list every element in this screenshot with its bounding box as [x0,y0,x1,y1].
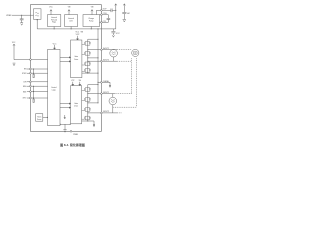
ground below C1 [20,23,23,26]
svg-text:Regs: Regs [52,22,56,24]
ground stub left [13,63,16,66]
pin AOUT2 [101,60,103,62]
ground ISENA arrow [109,85,111,87]
arrow GND indicator [64,115,66,119]
svg-text:VM: VM [91,6,94,8]
wire ISENA [98,81,101,83]
wire dashed motor left vertical [131,58,133,93]
wire winding A bottom tap [113,57,115,61]
wire AOUT1 external [102,49,117,51]
arrow logic to gdB 2 [60,107,71,108]
wire U2 stem [53,27,55,29]
wire CPL internal [100,21,101,23]
wire VCP internal [97,10,101,14]
svg-text:Pump: Pump [89,20,93,22]
wire BOUT1 external [102,93,114,95]
svg-text:DIR: DIR [23,82,27,84]
pin ISENA [101,81,103,83]
wire CPH internal [100,14,101,16]
wire supply rail [37,28,116,30]
wire VCP external [102,9,111,11]
wire HS2 feed B [88,102,98,104]
svg-text:nFLT: nFLT [23,98,27,100]
IC boundary [30,5,101,132]
pin AOUT1 [101,49,103,51]
wire VREF [12,14,34,16]
svg-text:VM: VM [68,6,71,8]
transistor Q1 [82,41,91,45]
winding B circle [109,97,117,105]
power arrows into U8 [72,82,81,86]
ground under C5 [112,35,114,37]
transistor Q6 [82,98,91,102]
power arrow into U5 [54,45,56,49]
power arrow VM column [115,4,117,29]
transistor Q2 [82,51,91,55]
capacitor C5 VCC [111,29,115,35]
wire flying cap to CPL [102,19,108,22]
node rail junctions [54,28,99,29]
wire U4 stem [90,27,92,29]
capacitor C1 [20,15,24,22]
power arrow into U7 [77,36,79,40]
wire nSLEEP [14,59,48,61]
ground bridge B arrow [93,124,95,127]
node VM column junction [115,10,116,11]
transistor Q8 [82,116,91,120]
transistor Q5 [82,88,91,92]
wire U3 stem [70,27,72,29]
svg-text:VCC: VCC [49,6,53,8]
pin CPH [101,14,103,16]
regulator block U2 [48,15,61,27]
wire BOUT2 external [102,112,117,114]
wire BOUT1 [88,93,101,95]
svg-text:VCC: VCC [12,42,16,44]
wire AOUT2 external [102,60,117,62]
svg-text:VCC: VCC [116,33,120,35]
power arrow VM supply [123,4,125,13]
wire thermal to logic [43,116,48,118]
svg-text:LDO: LDO [69,20,73,22]
wire dashed motor right vertical [136,58,138,107]
wire dashed motor B1 [115,93,132,95]
wire CPH to flying cap [102,15,108,19]
svg-text:STEP: STEP [22,73,27,75]
svg-text:EN: EN [24,69,27,71]
svg-text:VCC: VCC [53,43,57,45]
power arrow nSLEEP [13,44,15,60]
wire logic to gdB bottom [60,123,71,125]
svg-text:VREF: VREF [6,15,12,17]
svg-text:VCP: VCP [71,80,74,82]
wire HS2 feed A [88,57,98,59]
pin BOUT2 [101,112,103,114]
svg-text:MD1: MD1 [23,91,27,93]
wire bridge A drain feed [88,38,98,40]
rotor circle motor [132,49,139,56]
wire bridge B source bus [82,121,94,124]
ground GND pad [63,130,66,133]
wire BOUT2 [88,112,101,114]
control logic block U5 [48,49,60,125]
arrow logic to gdA 2 [60,61,71,62]
wire VM drop [97,29,99,103]
svg-text:Drive: Drive [74,58,78,61]
transistor Q3 [82,62,91,66]
charge pump block U4 [83,15,100,27]
ground below C4 [123,19,126,22]
LDO block U3 [65,15,78,27]
pin GND [70,130,72,132]
svg-text:图 8-4. 简化原理图: 图 8-4. 简化原理图 [60,142,85,147]
gate drive B block U8 [71,86,82,124]
gate drive A block U7 [71,40,82,78]
wire C2 to VM column [112,9,116,11]
svg-text:VCP: VCP [76,34,80,36]
svg-text:MD0: MD0 [23,86,27,88]
thermal sense block U6 [36,114,43,122]
winding A circle [110,49,118,57]
svg-text:Logic: Logic [52,90,56,92]
wire dashed motor A1 [117,49,132,51]
wire bridge A source bus [82,72,98,74]
power arrow above U2 [50,10,52,15]
oscillator glyph [35,12,39,16]
pin VCP [101,9,103,11]
capacitor C2 VCP [111,9,112,13]
wire AOUT1 [88,49,101,51]
node VREF junction [21,15,22,16]
svg-text:CPL: CPL [103,21,107,23]
power arrow above U3 [68,10,70,15]
svg-text:VM: VM [127,13,130,15]
wire OSC to rail [36,19,38,29]
wire dashed motor B2 stub [117,112,122,114]
oscillator block [34,9,42,19]
node OSC stem junction [37,19,38,20]
svg-text:VM: VM [79,80,82,82]
wire bridge A spine [87,39,89,73]
wire winding B taps [112,94,114,113]
resistor R2 pulldown [33,86,35,99]
pin BOUT1 [101,93,103,95]
wire dashed motor A2 [117,60,131,62]
svg-text:Control: Control [51,86,57,89]
arrow logic to gdB 1 [60,103,71,104]
svg-text:Gate: Gate [74,55,78,58]
capacitor C4 bulk [122,12,126,19]
resistor R1 pulldown [33,69,35,74]
wire bridge B spine [87,85,89,121]
capacitor C3 flying [107,18,111,19]
svg-text:Sense: Sense [37,119,41,121]
pin CPL [101,21,103,23]
wire dashed motor B3 [113,106,136,108]
svg-text:Gate: Gate [74,102,78,105]
wire bridge B drain feed [88,84,98,86]
pin nSLEEP circle [30,59,32,61]
svg-text:VM: VM [81,32,84,34]
svg-text:Therm: Therm [37,115,42,118]
wire ISENA external [102,82,110,85]
wire GND pin stem [64,124,66,129]
svg-text:PPAD: PPAD [73,133,78,136]
transistor Q4 [82,68,91,72]
power arrow above U4 [91,10,93,15]
wire AOUT2 [88,60,101,62]
transistor Q7 [82,108,91,112]
svg-text:Drive: Drive [74,104,78,107]
arrow logic to gdA 1 [60,57,71,58]
